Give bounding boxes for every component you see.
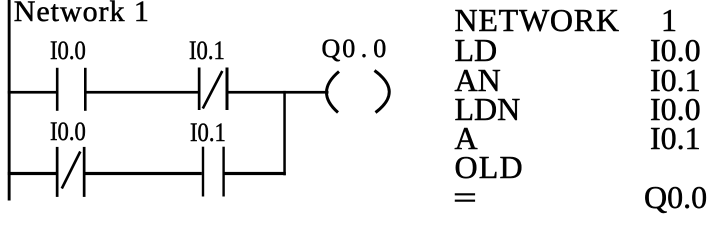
NO contact I0.0 (rung 1) right bar — [84, 68, 87, 111]
label Q0.0 above coil — [322, 36, 387, 62]
NC contact I0.0 (rung 2) right bar — [83, 147, 86, 197]
STL line 1 opcode NETWORK — [455, 4, 620, 36]
NC contact I0.0 (rung 2) left bar — [56, 147, 59, 197]
coil Q0.0 left parenthesis — [326, 72, 339, 113]
NC contact I0.1 (rung 1) slash — [203, 71, 223, 109]
STL line 7 operand Q0.0 — [644, 181, 707, 213]
STL line 6 opcode OLD — [455, 151, 524, 183]
coil Q0.0 right parenthesis — [375, 71, 390, 113]
STL line 7 opcode = — [453, 181, 477, 213]
rung 2 wire segment: contact I0.1 to branch vertical — [225, 172, 286, 175]
label I0.0 above rung 1 first contact — [50, 38, 86, 64]
left power rail — [8, 0, 11, 201]
branch vertical wire joining rung 2 to rung 1 — [283, 91, 286, 175]
STL line 3 opcode AN — [455, 64, 501, 96]
label I0.1 above rung 2 second contact — [190, 120, 226, 146]
STL line 5 opcode A — [455, 122, 478, 154]
rung 1 wire segment: contact I0.1 to coil Q0.0 — [228, 91, 329, 94]
NC contact I0.1 (rung 1) right bar — [226, 68, 229, 111]
NO contact I0.1 (rung 2) right bar — [222, 147, 224, 197]
STL line 2 opcode LD — [455, 34, 498, 66]
rung 2 wire segment: contact I0.0 to contact I0.1 — [85, 172, 202, 175]
STL line 1 operand 1 — [661, 4, 677, 36]
NC contact I0.1 (rung 1) left bar — [198, 68, 201, 111]
NO contact I0.1 (rung 2) left bar — [202, 147, 204, 197]
NC contact I0.0 (rung 2) slash — [62, 152, 81, 189]
rung 1 wire segment: contact I0.0 to contact I0.1 — [86, 91, 199, 94]
network title label "Network 1" — [14, 0, 150, 27]
rung 1 wire segment: rail to contact I0.0 — [8, 91, 56, 94]
label I0.0 above rung 2 first contact — [50, 119, 86, 145]
rung 2 wire segment: rail to contact I0.0 — [8, 172, 56, 175]
STL line 5 operand I0.1 — [650, 122, 701, 154]
label I0.1 above rung 1 second contact — [189, 38, 225, 64]
STL line 3 operand I0.1 — [650, 64, 701, 96]
STL line 2 operand I0.0 — [650, 34, 701, 66]
NO contact I0.0 (rung 1) left bar — [56, 68, 59, 111]
STL line 4 opcode LDN — [455, 93, 521, 125]
STL line 4 operand I0.0 — [650, 93, 701, 125]
